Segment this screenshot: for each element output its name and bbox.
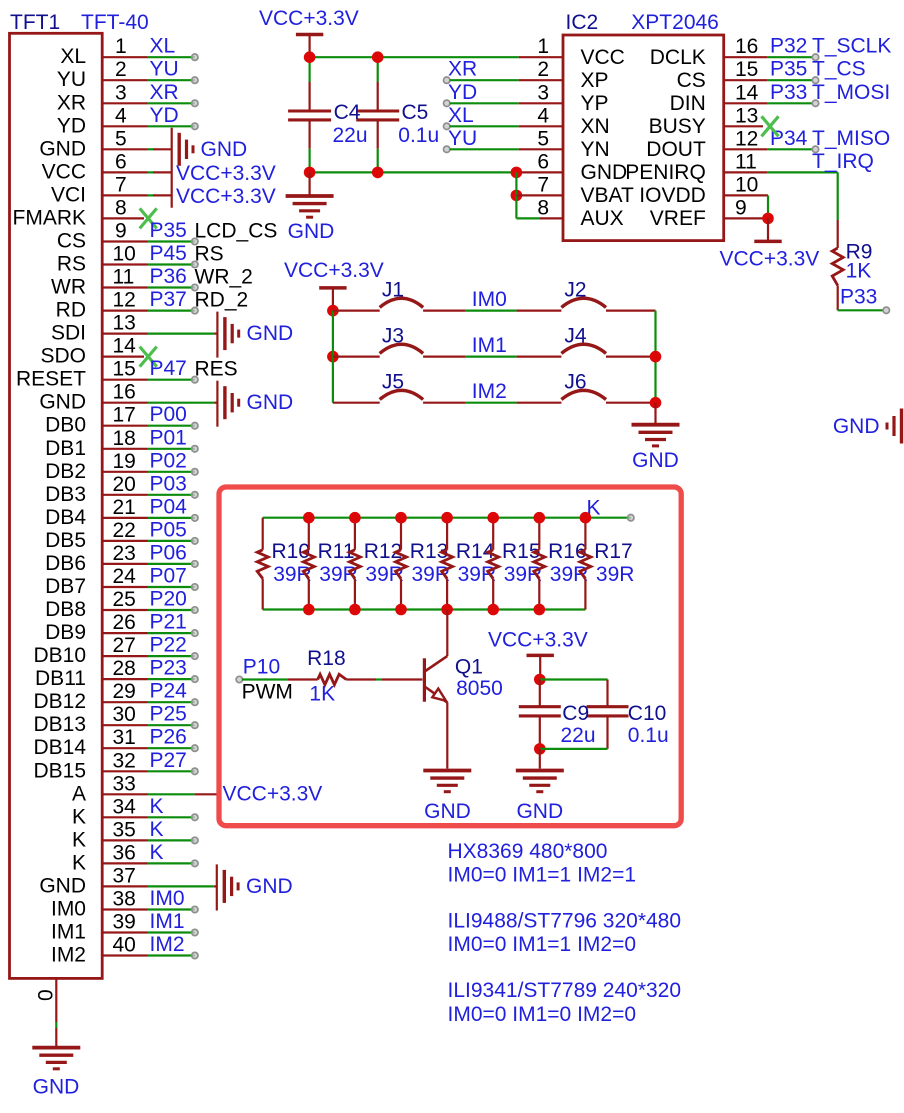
svg-text:DB10: DB10 <box>33 644 86 667</box>
svg-text:P24: P24 <box>150 680 188 703</box>
svg-text:TFT1: TFT1 <box>10 11 60 34</box>
svg-text:HX8369 480*800: HX8369 480*800 <box>448 840 608 863</box>
svg-text:10: 10 <box>113 243 136 266</box>
svg-text:K: K <box>72 805 86 828</box>
svg-text:YD: YD <box>448 81 477 104</box>
svg-text:IM0: IM0 <box>472 288 507 311</box>
svg-text:RESET: RESET <box>16 368 86 391</box>
svg-text:C10: C10 <box>628 702 667 725</box>
svg-text:P02: P02 <box>150 449 187 472</box>
svg-text:GND: GND <box>39 391 86 414</box>
svg-text:ILI9488/ST7796 320*480: ILI9488/ST7796 320*480 <box>448 909 682 932</box>
svg-text:12: 12 <box>735 127 758 150</box>
svg-text:13: 13 <box>735 104 758 127</box>
svg-text:1: 1 <box>537 35 549 58</box>
svg-text:13: 13 <box>113 312 136 335</box>
svg-text:A: A <box>72 782 86 805</box>
svg-text:GND: GND <box>246 875 293 898</box>
svg-text:VCC: VCC <box>42 160 86 183</box>
svg-text:9: 9 <box>115 220 127 243</box>
svg-text:DB15: DB15 <box>33 759 86 782</box>
svg-text:J1: J1 <box>382 279 404 302</box>
svg-text:XPT2046: XPT2046 <box>631 11 719 34</box>
svg-text:YD: YD <box>57 114 86 137</box>
svg-text:ILI9341/ST7789 240*320: ILI9341/ST7789 240*320 <box>448 979 682 1002</box>
svg-text:14: 14 <box>735 81 759 104</box>
svg-text:GND: GND <box>288 220 335 243</box>
svg-text:P21: P21 <box>150 611 187 634</box>
svg-text:P05: P05 <box>150 518 187 541</box>
svg-text:K: K <box>72 828 86 851</box>
svg-text:1K: 1K <box>846 260 872 283</box>
svg-text:K: K <box>150 841 164 864</box>
svg-text:IM2: IM2 <box>150 933 185 956</box>
svg-text:PENIRQ: PENIRQ <box>625 161 706 184</box>
svg-text:P27: P27 <box>150 749 187 772</box>
svg-text:35: 35 <box>113 818 136 841</box>
svg-text:AUX: AUX <box>581 207 624 230</box>
svg-text:GND: GND <box>33 1076 80 1099</box>
svg-text:P00: P00 <box>150 403 187 426</box>
svg-text:XR: XR <box>150 81 179 104</box>
svg-text:14: 14 <box>113 335 137 358</box>
svg-text:IM2: IM2 <box>51 944 86 967</box>
svg-text:TFT-40: TFT-40 <box>81 11 149 34</box>
svg-text:IM0=0 IM1=1 IM2=1: IM0=0 IM1=1 IM2=1 <box>448 863 637 886</box>
svg-text:IM1: IM1 <box>51 921 86 944</box>
svg-text:DB6: DB6 <box>45 552 86 575</box>
svg-text:P23: P23 <box>150 657 187 680</box>
svg-text:DB3: DB3 <box>45 483 86 506</box>
svg-text:YU: YU <box>57 68 86 91</box>
svg-text:VCC+3.3V: VCC+3.3V <box>259 7 359 30</box>
svg-text:VCI: VCI <box>51 183 86 206</box>
svg-text:CS: CS <box>57 230 86 253</box>
svg-text:1K: 1K <box>309 683 335 706</box>
svg-text:P25: P25 <box>150 703 187 726</box>
svg-text:RD: RD <box>56 299 86 322</box>
svg-text:IC2: IC2 <box>566 11 599 34</box>
svg-text:10: 10 <box>735 173 758 196</box>
svg-text:GND: GND <box>581 161 628 184</box>
svg-text:T_MOSI: T_MOSI <box>812 81 890 104</box>
svg-text:T_CS: T_CS <box>812 58 866 81</box>
svg-text:15: 15 <box>113 358 136 381</box>
svg-text:FMARK: FMARK <box>13 206 87 229</box>
svg-text:DB9: DB9 <box>45 621 86 644</box>
svg-text:SDI: SDI <box>51 322 86 345</box>
svg-text:IM0: IM0 <box>51 898 86 921</box>
svg-text:6: 6 <box>115 150 127 173</box>
svg-text:DOUT: DOUT <box>646 138 706 161</box>
svg-text:40: 40 <box>113 934 136 957</box>
svg-text:37: 37 <box>113 864 136 887</box>
svg-text:VREF: VREF <box>650 207 706 230</box>
svg-text:22u: 22u <box>561 724 596 747</box>
svg-text:T_MISO: T_MISO <box>812 127 890 150</box>
svg-text:P47: P47 <box>150 357 187 380</box>
svg-text:6: 6 <box>537 150 549 173</box>
svg-text:SDO: SDO <box>40 345 86 368</box>
svg-text:3: 3 <box>115 81 127 104</box>
svg-text:P20: P20 <box>150 588 187 611</box>
svg-text:DB4: DB4 <box>45 506 86 529</box>
svg-text:R17: R17 <box>594 540 633 563</box>
svg-text:RS: RS <box>195 242 224 265</box>
svg-text:IM0=0 IM1=0 IM2=0: IM0=0 IM1=0 IM2=0 <box>448 1003 637 1026</box>
svg-text:P37: P37 <box>150 288 187 311</box>
svg-text:XL: XL <box>60 45 86 68</box>
svg-text:XN: XN <box>581 115 610 138</box>
svg-text:DCLK: DCLK <box>650 46 706 69</box>
svg-text:P33: P33 <box>770 81 807 104</box>
svg-text:22: 22 <box>113 519 136 542</box>
svg-text:IM0: IM0 <box>150 887 185 910</box>
svg-text:12: 12 <box>113 289 136 312</box>
svg-text:VCC+3.3V: VCC+3.3V <box>488 629 588 652</box>
svg-text:DB0: DB0 <box>45 414 86 437</box>
svg-text:R18: R18 <box>307 647 346 670</box>
svg-text:P35: P35 <box>150 219 187 242</box>
svg-text:P33: P33 <box>840 286 877 309</box>
svg-text:DB8: DB8 <box>45 598 86 621</box>
svg-text:DB14: DB14 <box>33 736 86 759</box>
svg-text:P10: P10 <box>243 655 280 678</box>
svg-text:5: 5 <box>537 127 549 150</box>
svg-text:0: 0 <box>35 989 58 1001</box>
svg-text:19: 19 <box>113 450 136 473</box>
svg-text:36: 36 <box>113 841 136 864</box>
svg-text:8: 8 <box>537 196 549 219</box>
svg-text:GND: GND <box>39 137 86 160</box>
svg-text:WR_2: WR_2 <box>195 265 253 288</box>
svg-text:DB11: DB11 <box>35 667 86 690</box>
svg-text:J3: J3 <box>382 325 404 348</box>
svg-text:XL: XL <box>150 35 176 58</box>
svg-text:VCC+3.3V: VCC+3.3V <box>720 248 820 271</box>
svg-text:WR: WR <box>51 276 86 299</box>
svg-text:CS: CS <box>677 69 706 92</box>
svg-text:5: 5 <box>115 127 127 150</box>
svg-text:11: 11 <box>735 150 757 173</box>
svg-text:GND: GND <box>39 874 86 897</box>
svg-text:GND: GND <box>516 800 563 823</box>
svg-text:16: 16 <box>113 381 136 404</box>
svg-text:DB2: DB2 <box>45 460 86 483</box>
svg-text:18: 18 <box>113 427 136 450</box>
svg-text:BUSY: BUSY <box>649 115 706 138</box>
svg-text:P34: P34 <box>770 127 808 150</box>
svg-text:YD: YD <box>150 104 179 127</box>
svg-text:YN: YN <box>581 138 610 161</box>
svg-text:4: 4 <box>537 104 549 127</box>
svg-text:P07: P07 <box>150 565 187 588</box>
svg-text:T_SCLK: T_SCLK <box>812 35 891 58</box>
svg-text:28: 28 <box>113 657 136 680</box>
svg-text:RES: RES <box>195 358 238 381</box>
svg-text:24: 24 <box>113 565 137 588</box>
svg-text:VCC: VCC <box>581 46 625 69</box>
svg-text:C9: C9 <box>562 702 589 725</box>
svg-text:15: 15 <box>735 58 758 81</box>
svg-text:J6: J6 <box>564 371 586 394</box>
svg-text:34: 34 <box>113 795 137 818</box>
svg-text:XR: XR <box>57 91 86 114</box>
svg-text:VBAT: VBAT <box>581 184 634 207</box>
svg-text:P22: P22 <box>150 634 187 657</box>
svg-text:GND: GND <box>201 138 248 161</box>
svg-text:VCC+3.3V: VCC+3.3V <box>176 185 276 208</box>
svg-text:VCC+3.3V: VCC+3.3V <box>176 162 276 185</box>
svg-text:K: K <box>150 818 164 841</box>
svg-text:32: 32 <box>113 749 136 772</box>
svg-text:P03: P03 <box>150 472 187 495</box>
svg-text:33: 33 <box>113 772 136 795</box>
svg-text:J5: J5 <box>382 371 404 394</box>
svg-text:PWM: PWM <box>242 680 293 703</box>
svg-text:P45: P45 <box>150 242 187 265</box>
svg-text:GND: GND <box>247 322 294 345</box>
svg-text:RD_2: RD_2 <box>195 288 249 311</box>
svg-text:YU: YU <box>448 127 477 150</box>
svg-text:IM0=0 IM1=1 IM2=0: IM0=0 IM1=1 IM2=0 <box>448 933 637 956</box>
svg-text:8: 8 <box>115 196 127 219</box>
svg-text:31: 31 <box>113 726 136 749</box>
svg-text:XP: XP <box>581 69 609 92</box>
svg-text:GND: GND <box>833 415 880 438</box>
svg-text:DB7: DB7 <box>45 575 86 598</box>
svg-text:P06: P06 <box>150 541 187 564</box>
svg-text:XR: XR <box>448 58 477 81</box>
svg-text:26: 26 <box>113 611 136 634</box>
svg-text:IM1: IM1 <box>472 334 507 357</box>
svg-text:DIN: DIN <box>670 92 706 115</box>
svg-text:T_IRQ: T_IRQ <box>812 150 874 173</box>
svg-text:39: 39 <box>113 911 136 934</box>
svg-text:IM2: IM2 <box>472 380 507 403</box>
svg-text:LCD_CS: LCD_CS <box>195 219 278 242</box>
svg-text:17: 17 <box>113 404 136 427</box>
svg-text:2: 2 <box>115 58 127 81</box>
svg-text:J2: J2 <box>564 279 586 302</box>
svg-text:IM1: IM1 <box>150 910 185 933</box>
svg-text:P36: P36 <box>150 265 187 288</box>
svg-text:K: K <box>150 795 164 818</box>
svg-text:9: 9 <box>735 196 747 219</box>
svg-text:IOVDD: IOVDD <box>639 184 706 207</box>
svg-text:J4: J4 <box>564 325 587 348</box>
svg-text:C4: C4 <box>334 101 361 124</box>
svg-text:XL: XL <box>448 104 474 127</box>
svg-text:GND: GND <box>247 391 294 414</box>
svg-text:YP: YP <box>581 92 609 115</box>
svg-text:16: 16 <box>735 35 758 58</box>
svg-text:4: 4 <box>115 104 127 127</box>
svg-text:38: 38 <box>113 888 136 911</box>
svg-text:3: 3 <box>537 81 549 104</box>
svg-text:DB1: DB1 <box>45 437 86 460</box>
svg-text:P32: P32 <box>770 35 807 58</box>
svg-text:VCC+3.3V: VCC+3.3V <box>284 259 384 282</box>
svg-text:1: 1 <box>115 35 127 58</box>
svg-text:GND: GND <box>424 800 471 823</box>
svg-text:0.1u: 0.1u <box>398 124 439 147</box>
svg-text:27: 27 <box>113 634 136 657</box>
svg-text:P35: P35 <box>770 58 807 81</box>
svg-text:K: K <box>72 851 86 874</box>
svg-text:VCC+3.3V: VCC+3.3V <box>223 783 323 806</box>
svg-text:7: 7 <box>115 173 127 196</box>
svg-text:25: 25 <box>113 588 136 611</box>
svg-text:P04: P04 <box>150 495 188 518</box>
svg-text:29: 29 <box>113 680 136 703</box>
svg-text:8050: 8050 <box>456 677 503 700</box>
svg-text:C5: C5 <box>402 101 429 124</box>
svg-text:11: 11 <box>113 266 135 289</box>
svg-text:7: 7 <box>537 173 549 196</box>
svg-text:DB13: DB13 <box>33 713 86 736</box>
svg-text:2: 2 <box>537 58 549 81</box>
svg-text:RS: RS <box>57 253 86 276</box>
svg-text:YU: YU <box>150 58 179 81</box>
svg-text:P01: P01 <box>150 426 187 449</box>
svg-text:P26: P26 <box>150 726 187 749</box>
svg-text:30: 30 <box>113 703 136 726</box>
svg-text:21: 21 <box>113 496 136 519</box>
svg-text:DB12: DB12 <box>33 690 86 713</box>
svg-text:20: 20 <box>113 473 136 496</box>
svg-text:GND: GND <box>632 449 679 472</box>
svg-text:23: 23 <box>113 542 136 565</box>
svg-text:22u: 22u <box>333 124 368 147</box>
svg-text:Q1: Q1 <box>455 655 483 678</box>
svg-text:0.1u: 0.1u <box>628 724 669 747</box>
svg-text:39R: 39R <box>596 563 635 586</box>
svg-text:DB5: DB5 <box>45 529 86 552</box>
